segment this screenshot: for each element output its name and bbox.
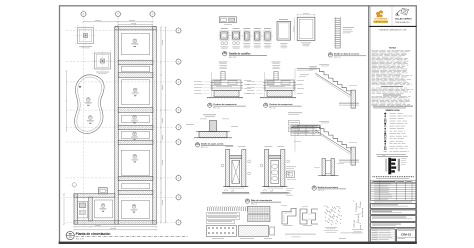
rebar speckle cluster (324, 206, 342, 233)
svg-text:Detalle de dado de concreto: Detalle de dado de concreto (334, 53, 360, 56)
grid bubble row 5 (175, 124, 182, 131)
svg-text:ESTRUC: ESTRUC (404, 22, 411, 24)
corbel detail 2 (300, 206, 318, 226)
bottom notes (285, 233, 316, 236)
room R2 (121, 66, 149, 71)
labels under column at 257.2 (254, 42, 261, 45)
logo glyph (376, 10, 383, 17)
house sketch (395, 9, 409, 16)
legend item 16 (384, 150, 387, 152)
svg-text:Detalle de castillos: Detalle de castillos (229, 53, 251, 56)
bar schedule rows (207, 213, 240, 224)
column detail K3 (262, 28, 272, 41)
legend item 3 (384, 118, 386, 120)
column detail C2 (230, 28, 242, 40)
legend item 15 (384, 148, 386, 150)
horizontal grid dash lines (66, 30, 175, 32)
sheet number box (397, 229, 416, 242)
room R7 (121, 201, 149, 219)
T footing detail (186, 115, 238, 140)
pool label 2 (87, 116, 94, 124)
legend item 13 (384, 143, 386, 145)
svg-text:Detalle de muro lateral: Detalle de muro lateral (318, 186, 339, 189)
footing detail B (92, 51, 113, 72)
column detail K2 (252, 28, 262, 41)
svg-text:VILLAS CIERVO: VILLAS CIERVO (395, 18, 412, 21)
title dado de concreto (328, 53, 332, 57)
grid bubble row 7 (175, 175, 182, 182)
svg-text:Planta de cimentación: Planta de cimentación (76, 232, 111, 236)
wing left dim (63, 194, 65, 224)
svg-text:SIMBOLOGIA: SIMBOLOGIA (385, 109, 400, 112)
grid bubble row 4 (175, 107, 182, 114)
title detalle de castillos (222, 51, 227, 56)
small boxed labels (288, 121, 299, 126)
header divider (391, 7, 393, 27)
svg-text:Cimiento de mampostería: Cimiento de mampostería (269, 103, 293, 106)
legend item 10 (384, 135, 386, 137)
crosshatch block 2 (248, 215, 271, 222)
svg-text:ESC 1:20: ESC 1:20 (201, 147, 208, 149)
svg-text:Esc 1:75: Esc 1:75 (76, 238, 85, 240)
cross wall band (118, 108, 153, 113)
stair detail 1 (294, 64, 359, 108)
zapata plan Z-1 (294, 13, 317, 70)
logo yellow banner (373, 20, 388, 23)
top dimension line (83, 21, 154, 25)
map scale ticks (372, 176, 375, 177)
legend item 12 (384, 140, 387, 143)
room R5 (121, 132, 149, 139)
svg-text:ESC 1:20: ESC 1:20 (334, 57, 341, 59)
pool outline (74, 75, 104, 134)
labels under column at 283.8 (280, 42, 287, 45)
left small detail cluster (286, 167, 296, 180)
svg-text:NOTAS: NOTAS (389, 47, 397, 50)
plan title bubble (66, 231, 74, 239)
cross wall band (118, 190, 153, 194)
bottom wall (74, 221, 156, 224)
cimiento title left (208, 103, 212, 107)
svg-text:PLANTA DE CIMENTACION / CIM: PLANTA DE CIMENTACION / CIM (379, 28, 407, 31)
pier title (312, 186, 316, 190)
column detail C1 (218, 28, 230, 40)
pier section below stair 2 (314, 159, 344, 176)
cimiento section left (194, 62, 251, 99)
wing room A (78, 201, 88, 218)
cross wall band (118, 140, 153, 144)
rebar hooks row (208, 207, 209, 212)
grid bubble top A (80, 11, 87, 18)
svg-text:ESC 1:20: ESC 1:20 (229, 57, 236, 59)
grid bubble top C (149, 11, 156, 18)
wall section left (221, 146, 250, 193)
grid bubble row 1 (175, 27, 182, 34)
legend item 4 (384, 120, 386, 122)
sheet border frame (60, 6, 417, 243)
labels under column at 267.5 (264, 42, 271, 45)
bar marks under column at 236.1 (233, 42, 236, 45)
footer box 2 (370, 210, 416, 215)
cimiento title right (264, 103, 268, 107)
doblado header right (263, 190, 273, 192)
room R6 (121, 150, 149, 175)
grid bubble row 8 (175, 194, 182, 201)
footer info table left (370, 229, 395, 242)
grid bubble row 3 (175, 79, 182, 86)
labels under column at 246.8 (243, 42, 250, 45)
legend item 8 (384, 130, 386, 132)
stair detail 2 (294, 121, 359, 165)
svg-text:CIM-01: CIM-01 (401, 233, 411, 237)
left dimension line (66, 70, 68, 132)
legend item 5 (384, 123, 386, 125)
cimiento section right (247, 62, 304, 99)
svg-text:GOLONDRINA: GOLONDRINA (374, 18, 388, 21)
footer box 3 (370, 216, 416, 222)
corbel detail 1 (281, 205, 297, 225)
wing top wall (74, 194, 115, 197)
footer box 1 (370, 203, 416, 208)
legend footnote (376, 153, 406, 156)
room R4 (121, 115, 149, 122)
cross wall band (118, 125, 153, 129)
svg-text:CONSTRUCCIONES: CONSTRUCCIONES (374, 22, 388, 24)
small schedule table (291, 125, 321, 136)
cross wall band (118, 60, 153, 65)
top wall band (115, 27, 157, 30)
legend item 11 (384, 138, 386, 140)
right speckle detail (352, 201, 363, 234)
svg-text:ESC 1:20: ESC 1:20 (269, 107, 276, 109)
legend box (219, 17, 236, 23)
wing left wall (74, 194, 77, 224)
svg-text:Cimiento de mampostería: Cimiento de mampostería (213, 103, 237, 106)
grid bubble row 2 (175, 58, 182, 65)
bottom right caption (339, 237, 346, 240)
header box bottom line (369, 25, 417, 27)
right dimension line (160, 26, 166, 223)
castillo elevation ladder (335, 17, 340, 48)
legend item 14 (384, 145, 386, 147)
legend item 9 (384, 133, 386, 135)
simbologia header text (373, 105, 413, 108)
bar marks under column at 224.3 (221, 42, 224, 45)
vertical grid dash lines (83, 18, 85, 228)
legend item 2 (384, 115, 386, 117)
closet walls (99, 188, 108, 194)
wing middle wall (89, 197, 92, 221)
title block left border (368, 6, 370, 243)
pool label (85, 98, 92, 106)
location map figure (382, 155, 407, 174)
title dala de cimentacion (245, 199, 249, 203)
legend item 7 (384, 128, 386, 130)
room R3 (121, 80, 149, 105)
schedule table (371, 180, 416, 200)
svg-text:ESC 1:20: ESC 1:20 (318, 190, 325, 192)
wing room B (95, 200, 113, 218)
column detail K1 (242, 28, 251, 41)
svg-text:ESC 1:20: ESC 1:20 (213, 107, 220, 109)
location map caption (377, 155, 408, 158)
T detail title (195, 143, 199, 147)
grid bubble row 9 (175, 219, 182, 226)
grid bubble row 6 (175, 139, 182, 146)
room R1 (121, 33, 149, 54)
svg-text:Dala de cimentación: Dala de cimentación (251, 199, 273, 202)
wall section right (260, 146, 289, 193)
cross wall band (118, 176, 153, 180)
svg-text:Detalle de zapata corrida: Detalle de zapata corrida (201, 143, 224, 146)
room R6b (122, 183, 150, 189)
bottom dimension lines (73, 226, 157, 231)
notes text block (372, 49, 375, 52)
wing grid bubble (72, 183, 76, 187)
footer box 4 (370, 223, 416, 228)
svg-text:ESC 1:20: ESC 1:20 (251, 203, 258, 205)
column detail Z big (277, 21, 291, 40)
beam band (207, 226, 275, 237)
sheet bottom heavy edge (59, 242, 417, 244)
left wall band (115, 27, 119, 225)
right wall band (153, 27, 157, 225)
grid bubble top B (115, 11, 122, 18)
cross wall band (118, 73, 153, 78)
doblado header left (224, 190, 234, 192)
legend item 1 (384, 112, 387, 115)
footing detail A (75, 25, 96, 46)
legend item 6 (384, 125, 386, 127)
crosshatch block 1 (248, 206, 271, 213)
